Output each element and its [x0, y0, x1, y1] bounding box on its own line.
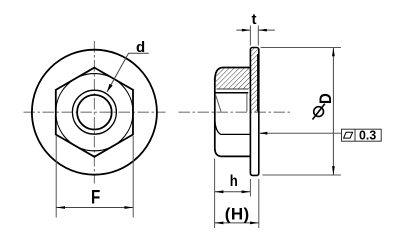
centerline horizontal [179, 111, 292, 113]
flatness frame box [342, 129, 382, 141]
H arrow left [215, 222, 224, 225]
H arrow right [250, 222, 259, 225]
t dimension left tail [236, 29, 250, 31]
nut section hatch [215, 68, 251, 90]
flange right face thick edge [257, 54, 259, 112]
phiD dimension line [332, 48, 334, 176]
centerline horizontal [24, 111, 166, 113]
F arrow left [56, 206, 65, 209]
svg-text:F: F [91, 186, 100, 208]
svg-text:D: D [317, 93, 335, 104]
phiD arrow top [332, 48, 335, 57]
hole outer circle [72, 90, 116, 134]
flatness symbol [344, 132, 353, 138]
nut bottom edge [222, 155, 250, 157]
face boundary line [221, 133, 251, 135]
svg-text:0.3: 0.3 [359, 128, 376, 142]
flange section hatch [250, 48, 258, 113]
t extension right [257, 26, 259, 46]
H dimension line [215, 222, 259, 224]
F extension line left [55, 136, 57, 218]
label phiD: phi circle [314, 107, 324, 117]
leader d arrowhead [107, 84, 113, 92]
mid-face chamfer arc [215, 121, 221, 135]
H right extension [258, 179, 260, 228]
t extension left [249, 26, 251, 46]
t arrow left [242, 29, 251, 32]
label phiD: phi slash [313, 104, 325, 120]
h right extension [249, 179, 251, 197]
nut top edge [223, 67, 251, 69]
flange outline [250, 48, 258, 176]
countersink left [215, 94, 221, 112]
svg-text:t: t [252, 11, 257, 28]
nut top-left chamfer arc [215, 68, 223, 82]
F arrow right [124, 206, 133, 209]
nut bottom-left chamfer arc [215, 149, 222, 157]
nut left face [214, 78, 216, 150]
hole inner circle [77, 95, 112, 130]
phiD extension bottom [262, 174, 341, 176]
t dimension right tail [258, 29, 275, 31]
t arrow right [258, 29, 267, 32]
svg-text:h: h [230, 173, 238, 190]
flatness leader line [259, 132, 342, 134]
h arrow left [215, 190, 224, 193]
thread major line [217, 88, 249, 90]
h arrow right [242, 190, 251, 193]
svg-text:(H): (H) [225, 205, 250, 224]
h dimension line [215, 191, 251, 193]
centerline vertical [93, 41, 95, 184]
h/H left extension [214, 159, 216, 229]
flatness leader arrow [259, 132, 268, 135]
flange circle [32, 50, 157, 175]
phiD arrow bottom [332, 166, 335, 175]
hexagon [56, 68, 133, 157]
F dimension line [56, 207, 133, 209]
F extension line right [132, 136, 134, 218]
flatness frame divider [354, 129, 356, 141]
leader d [107, 53, 149, 92]
svg-text:d: d [136, 39, 145, 56]
hole edge line [215, 92, 248, 94]
phiD extension top [261, 47, 341, 49]
chamfer circle [56, 74, 133, 151]
countersink right [246, 93, 248, 112]
